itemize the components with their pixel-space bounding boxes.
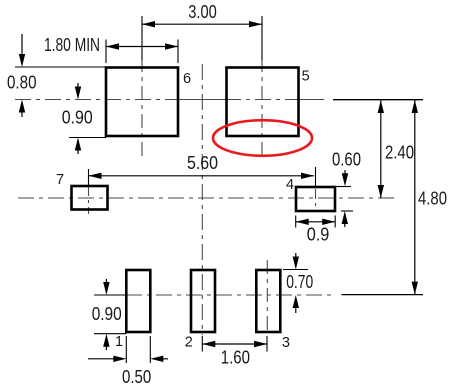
extension tick pad5 axis top <box>261 16 263 60</box>
svg-text:3: 3 <box>282 335 290 351</box>
centerline horizontal top row (y=99.5) <box>15 99 324 101</box>
extension tick pad4 right edge <box>334 216 336 228</box>
dimension 2.40 line <box>378 100 384 198</box>
red highlight ellipse <box>213 120 312 156</box>
pad 2 <box>191 270 215 332</box>
extension tick pad6 axis top <box>141 16 143 60</box>
pad 5 <box>227 68 299 137</box>
svg-text:0.80: 0.80 <box>7 72 37 93</box>
svg-text:0.50: 0.50 <box>122 366 151 387</box>
svg-text:2.40: 2.40 <box>385 142 414 163</box>
centerline horizontal middle row (y=198) <box>18 197 396 199</box>
svg-text:1.60: 1.60 <box>221 346 250 367</box>
svg-text:0.90: 0.90 <box>62 107 93 128</box>
svg-text:7: 7 <box>56 172 64 188</box>
svg-text:5.60: 5.60 <box>187 152 218 173</box>
extension tick pad4 axis <box>315 167 317 187</box>
dimension 3.00 line <box>142 21 262 27</box>
extension line pad6 top edge left <box>15 66 106 68</box>
extension line pad1 bottom edge left <box>94 333 126 335</box>
centerline vertical pad3 axis <box>266 260 268 335</box>
centerline vertical pad6 axis <box>141 58 143 158</box>
svg-text:4: 4 <box>286 177 294 193</box>
dimension 0.90 arrows (bottom row) <box>103 279 109 350</box>
svg-text:0.90: 0.90 <box>92 303 122 324</box>
dimension 1.80 MIN line <box>106 43 178 49</box>
extension line bottom centerline left <box>94 294 126 296</box>
centerline horizontal bottom row (y=295) <box>126 294 336 296</box>
dimension 0.70 arrows <box>293 253 299 313</box>
extension line pad4 bottom edge right <box>341 210 353 212</box>
dimension 5.60 line <box>89 173 315 179</box>
pad 1 <box>126 270 150 332</box>
pad 6 <box>106 68 178 137</box>
pad 7 <box>72 186 108 210</box>
extension tick pad6 right edge <box>177 40 179 64</box>
centerline vertical pad7 axis <box>88 186 90 214</box>
svg-text:4.80: 4.80 <box>418 187 447 208</box>
dimension 0.9 line under pad4 <box>296 219 336 225</box>
pad 4 <box>296 187 335 211</box>
centerline top row solid segments <box>179 99 324 101</box>
extension tick pad3 axis below <box>266 336 268 352</box>
dimension 0.90 arrows (top row) <box>75 83 81 154</box>
extension tick pad4 left edge <box>295 216 297 228</box>
dimension 1.60 line <box>202 341 267 347</box>
dimension 0.80 arrows <box>19 34 25 117</box>
centerline vertical pad5 axis <box>261 58 263 158</box>
dimension 4.80 line <box>412 100 418 295</box>
extension line pad4 top edge right <box>336 186 351 188</box>
extension line pad6 bottom edge left <box>69 137 106 139</box>
svg-text:6: 6 <box>183 71 191 87</box>
svg-text:2: 2 <box>185 335 193 351</box>
centerline vertical pad4 axis <box>315 189 317 209</box>
svg-text:1: 1 <box>115 334 123 350</box>
svg-text:1.80 MIN: 1.80 MIN <box>44 34 100 55</box>
extension line top centerline right <box>333 99 423 101</box>
svg-text:3.00: 3.00 <box>188 1 217 22</box>
centerline vertical package axis (x=202.3) <box>201 64 203 335</box>
dimension 0.50 arrows <box>88 356 168 362</box>
pad 3 <box>256 270 280 332</box>
svg-text:0.70: 0.70 <box>286 271 313 292</box>
svg-text:0.9: 0.9 <box>307 224 330 245</box>
extension line pad3 top edge right <box>283 269 308 271</box>
extension tick pad1 right edge below <box>149 336 151 363</box>
svg-text:0.60: 0.60 <box>332 149 361 170</box>
extension tick pad2 axis below <box>201 336 203 352</box>
svg-text:5: 5 <box>302 69 310 85</box>
dimension 0.60 arrows <box>342 170 349 227</box>
extension line bottom centerline right <box>342 294 424 296</box>
extension tick pad6 left edge <box>105 40 107 64</box>
extension tick pad7 axis <box>88 169 90 186</box>
extension tick pad1 left edge below <box>125 336 127 363</box>
